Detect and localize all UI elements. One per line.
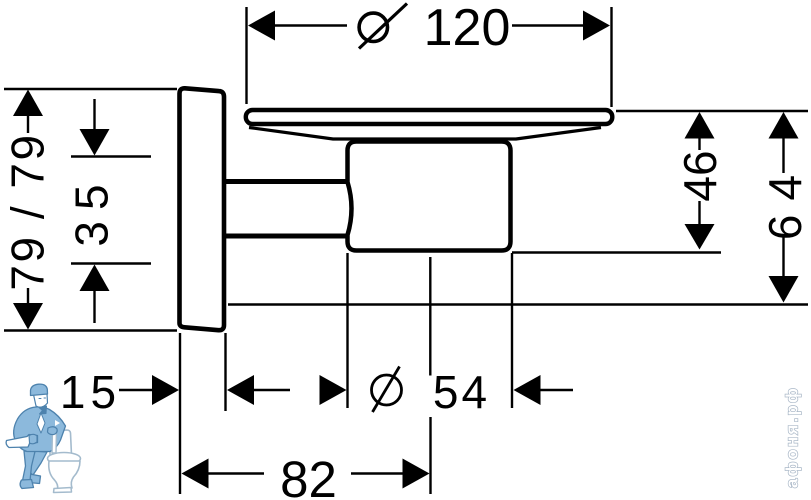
dimension 46 arrow down: [685, 224, 715, 250]
dimension 79/79 extension line top: [4, 88, 177, 90]
svg-text:15: 15: [60, 366, 121, 418]
soap dish plate (top bar): [246, 110, 613, 124]
dimension Ø120 arrow right: [583, 11, 610, 41]
dimension 79/79 arrow bottom: [13, 303, 43, 330]
toilet tank: [50, 430, 72, 457]
plumber body / jacket: [14, 407, 66, 452]
arm top line: [226, 179, 349, 184]
dimension 46 bottom tick: [512, 251, 721, 253]
arm bottom line: [226, 234, 349, 239]
diameter symbol of Ø120: [359, 13, 387, 41]
dimension 46 arrow up: [685, 112, 715, 139]
watermark: plumber logo: [6, 384, 80, 492]
dimension 15 arrow pointing right: [152, 375, 179, 405]
plumber hand on handle: [48, 427, 58, 435]
dimension 15 arrow pointing left: [227, 375, 254, 405]
soap dish underside taper: [249, 128, 601, 140]
dimension 64 bottom reference line: [228, 303, 808, 305]
wall plate: [179, 88, 224, 330]
dimension 82 line right segment: [351, 472, 403, 474]
dimension 82 line left segment: [207, 472, 264, 474]
dimension Ø54 arrow pointing right: [320, 375, 347, 405]
dimension 64 stems: [782, 138, 784, 174]
svg-text:64: 64: [759, 161, 811, 240]
dimension 35 upper stem: [93, 99, 95, 130]
toilet bowl body: [49, 461, 80, 489]
plunger handle under hand: [52, 429, 57, 453]
dimension Ø120 extension line left: [245, 7, 247, 104]
plumber face: [34, 394, 48, 408]
dimension 64 arrow down: [769, 276, 799, 303]
dimension Ø120 dimension line left segment: [274, 24, 347, 26]
svg-text:120: 120: [424, 0, 511, 57]
plumber front shoe: [28, 474, 41, 484]
dimension 64 arrow up: [769, 112, 799, 139]
dimension 15 extension line left: [179, 333, 181, 494]
svg-text:афоня.рф: афоня.рф: [783, 386, 802, 488]
svg-text:82: 82: [280, 451, 337, 500]
svg-text:54: 54: [433, 366, 490, 418]
pocket square: [55, 420, 60, 426]
svg-text:35: 35: [66, 173, 118, 246]
dimension 79/79 line segments: [27, 115, 29, 133]
dimension Ø120 dimension line right segment: [512, 24, 584, 26]
dimension 35 tick bottom: [71, 262, 151, 265]
dimension 15 extension line right: [224, 333, 226, 411]
toilet bowl rim: [48, 453, 81, 465]
plumber cap: [31, 384, 48, 395]
cup centerline: [429, 257, 431, 376]
dimension 46/64 top reference line: [616, 110, 808, 112]
dimension Ø54 extension line right: [511, 253, 513, 408]
dimension Ø54 lead line right: [539, 389, 573, 391]
dimension 79/79 arrow top: [13, 90, 43, 117]
dimension 15 lead line right: [253, 389, 290, 391]
dimension Ø54 extension line left: [346, 253, 348, 408]
dimension 15 lead line left: [119, 389, 153, 391]
dimension 79/79 extension line bottom: [4, 329, 177, 331]
plumber rear shoe: [20, 480, 33, 489]
plumber standing leg: [23, 451, 36, 481]
jacket lapel detail: [37, 413, 45, 433]
dimension Ø120 extension line right: [610, 7, 612, 107]
svg-text:46: 46: [674, 150, 726, 201]
holder cup: [348, 142, 511, 251]
plumber crossed leg: [27, 451, 48, 475]
dimension 46 stems: [698, 138, 700, 151]
dimension 82 arrow pointing left: [182, 459, 209, 489]
dimension 82 extension line right: [429, 417, 431, 494]
dimension 82 arrow pointing right: [403, 459, 430, 489]
dimension 35 lower stem: [93, 290, 95, 323]
dimension 35 arrow down: [80, 129, 110, 156]
svg-text:79 / 79: 79 / 79: [2, 132, 54, 290]
toilet base: [54, 488, 72, 493]
diameter symbol of Ø54: [372, 375, 402, 405]
face features: [39, 397, 46, 400]
dimension Ø54 arrow pointing left: [514, 375, 541, 405]
dimension 35 arrow up: [80, 265, 110, 292]
wrench in left hand: [6, 435, 37, 448]
dimension Ø120 arrow left: [248, 11, 275, 41]
dimension 35 tick top: [71, 155, 151, 158]
hand on wrench: [29, 434, 37, 443]
bowtie: [39, 406, 47, 414]
